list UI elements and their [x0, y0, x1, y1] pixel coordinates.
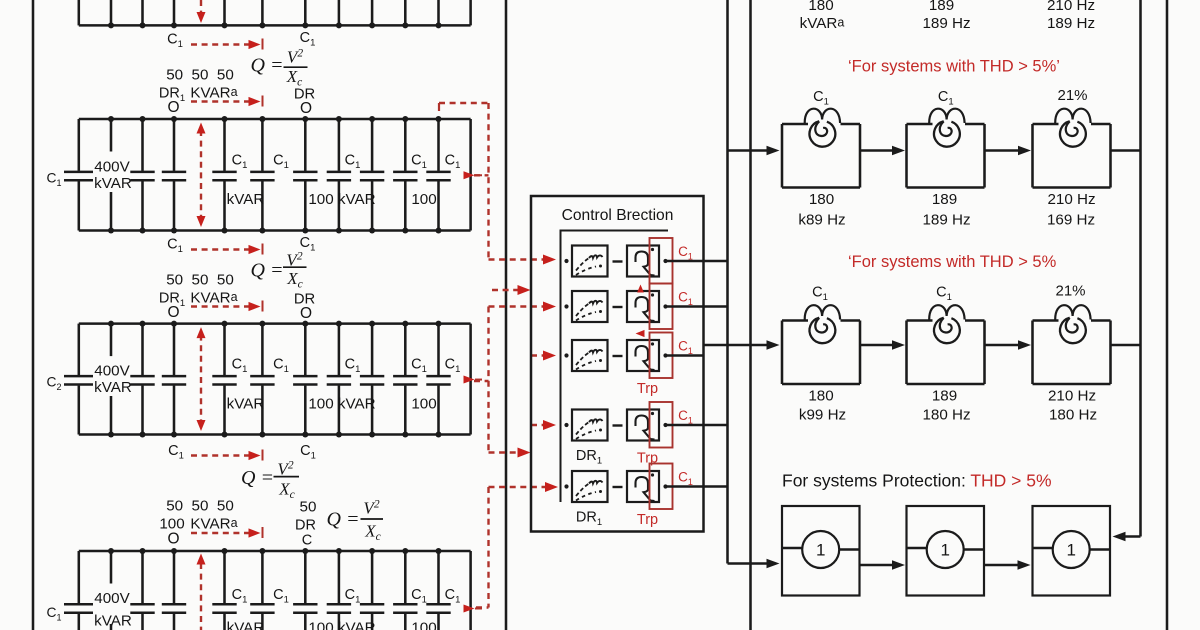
- svg-text:O: O: [167, 99, 179, 116]
- svg-text:100: 100: [411, 191, 436, 208]
- svg-text:180: 180: [808, 0, 833, 14]
- svg-text:189: 189: [929, 0, 954, 14]
- svg-text:100: 100: [411, 620, 436, 630]
- svg-text:50: 50: [300, 499, 317, 516]
- svg-text:180: 180: [809, 191, 834, 208]
- svg-text:O: O: [300, 100, 312, 117]
- svg-text:100 kVAR: 100 kVAR: [308, 395, 375, 412]
- svg-text:50 50 50: 50 50 50: [166, 272, 234, 289]
- svg-text:KVARa: KVARa: [190, 85, 237, 102]
- svg-text:100: 100: [411, 395, 436, 412]
- svg-text:O: O: [167, 304, 179, 321]
- svg-text:400V: 400V: [94, 363, 130, 380]
- svg-text:Q =: Q =: [251, 260, 284, 282]
- svg-text:50 50 50: 50 50 50: [166, 67, 234, 84]
- svg-text:189 Hz: 189 Hz: [922, 212, 970, 229]
- svg-text:‘For systems with THD > 5%’: ‘For systems with THD > 5%’: [848, 58, 1060, 76]
- svg-text:O: O: [300, 305, 312, 322]
- svg-text:DR: DR: [295, 518, 316, 534]
- svg-text:Q =: Q =: [327, 509, 360, 531]
- svg-text:KVARa: KVARa: [190, 290, 237, 307]
- svg-text:kVAR: kVAR: [94, 175, 132, 192]
- svg-text:O: O: [167, 531, 179, 548]
- svg-text:kVAR: kVAR: [94, 379, 132, 396]
- svg-text:Q =: Q =: [251, 54, 284, 76]
- svg-text:Q =: Q =: [241, 467, 274, 489]
- svg-text:k99 Hz: k99 Hz: [799, 407, 846, 424]
- svg-text:100 kVAR: 100 kVAR: [308, 191, 375, 208]
- svg-text:210 Hz: 210 Hz: [1047, 0, 1095, 14]
- svg-text:180: 180: [808, 388, 833, 405]
- svg-text:kVAR: kVAR: [94, 613, 132, 630]
- svg-text:kVAR: kVAR: [227, 395, 265, 412]
- svg-text:KVARa: KVARa: [190, 516, 237, 533]
- svg-text:1: 1: [940, 541, 949, 560]
- svg-text:189: 189: [932, 388, 957, 405]
- svg-text:100 kVAR: 100 kVAR: [308, 620, 375, 630]
- svg-text:kVAR: kVAR: [227, 191, 265, 208]
- svg-text:210 Hz: 210 Hz: [1047, 191, 1095, 208]
- svg-text:Trp: Trp: [637, 512, 658, 528]
- svg-text:For systems Protection: THD >: For systems Protection: THD > 5%: [782, 471, 1052, 491]
- svg-text:400V: 400V: [94, 158, 130, 175]
- svg-text:180 Hz: 180 Hz: [1049, 407, 1097, 424]
- svg-text:169 Hz: 169 Hz: [1047, 212, 1095, 229]
- svg-text:210 Hz: 210 Hz: [1048, 388, 1096, 405]
- svg-text:C: C: [302, 533, 312, 549]
- svg-text:50 50 50: 50 50 50: [166, 498, 234, 515]
- svg-text:21%: 21%: [1057, 87, 1087, 104]
- svg-text:1: 1: [1066, 541, 1075, 560]
- svg-text:‘For systems with THD > 5%: ‘For systems with THD > 5%: [848, 253, 1057, 271]
- svg-text:k89 Hz: k89 Hz: [798, 212, 845, 229]
- svg-text:21%: 21%: [1055, 283, 1085, 300]
- svg-text:kVARa: kVARa: [800, 15, 845, 32]
- svg-text:1: 1: [816, 541, 825, 560]
- svg-text:189 Hz: 189 Hz: [922, 15, 970, 32]
- svg-text:kVAR: kVAR: [227, 620, 265, 630]
- svg-text:Control Brection: Control Brection: [562, 207, 674, 224]
- svg-text:189 Hz: 189 Hz: [1047, 15, 1095, 32]
- svg-text:400V: 400V: [94, 590, 130, 607]
- svg-text:189: 189: [932, 191, 957, 208]
- svg-text:180 Hz: 180 Hz: [922, 407, 970, 424]
- svg-text:Trp: Trp: [637, 381, 658, 397]
